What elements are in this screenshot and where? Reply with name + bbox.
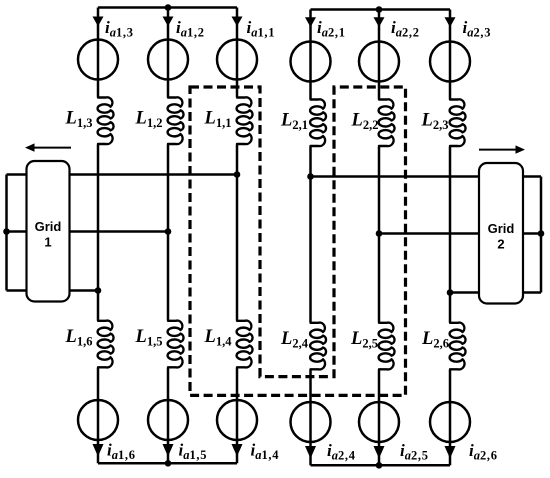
grid1 box [27,161,70,302]
wire top bus right [311,8,451,11]
inductor L1,4 [237,321,253,368]
inductor L2,1 [310,99,326,146]
wire branch a2,2 upper [378,10,381,100]
inductor L1,5 [168,321,184,368]
wire grid2 bus middle [379,232,541,235]
wire grid2 right bracket [540,177,543,293]
inductor L2,5 [379,323,395,370]
inductor L2,6 [450,323,466,370]
current source circle lower a1,4 [217,400,257,440]
arrow down i a2,6 [445,446,456,459]
wire branch a2,2 middle [378,147,381,323]
inductor L2,4 [310,323,326,370]
dashed module contour [190,87,406,395]
arrow down i a2,2 [374,17,385,27]
wire branch a1,2 lower [167,368,170,464]
wire branch a1,2 middle [167,145,170,321]
wire grid1 bus upper [7,173,238,176]
wire branch a2,1 lower [309,370,312,466]
current source circle upper a1,3 [78,40,118,80]
wire branch a2,3 middle [449,147,452,323]
junction dot grid1 lower bus at branch a1,3 [95,287,102,294]
current source circle lower a1,6 [78,400,118,440]
wire branch a1,2 upper [167,8,170,98]
current source circle upper a1,1 [217,40,257,80]
arrow down i a2,3 [445,17,456,27]
junction dot grid2 lower bus at branch a2,3 [447,289,454,296]
wire branch a1,1 middle [236,145,239,321]
inductor L1,1 [237,97,253,144]
wire top bus left [98,6,237,9]
junction dot grid1 left bracket [3,228,10,235]
junction dot grid1 upper bus at branch a1,1 [234,171,241,178]
wire branch a2,1 middle [309,147,312,323]
junction dot grid2 middle bus at branch a2,2 [376,230,383,237]
junction dot grid2 right bracket [538,230,545,237]
junction dot top bus left [165,4,172,11]
svg-text:2: 2 [497,237,504,252]
junction dot grid2 upper bus at branch a2,1 [307,173,314,180]
arrow down i a2,5 [374,446,385,459]
wire bottom bus left [98,462,237,465]
wire grid2 bus upper [311,175,542,178]
current source circle lower a2,4 [291,402,331,442]
wire branch a2,3 lower [449,370,452,466]
wire branch a1,3 upper [97,8,100,98]
arrow down i a1,6 [93,444,104,457]
current source circle lower a2,5 [359,402,399,442]
wire grid1 bus middle [7,230,169,233]
inductor L2,2 [379,99,395,146]
arrow power flow grid2 [479,145,525,153]
inductor L1,3 [98,97,114,144]
arrow down i a1,1 [232,17,243,27]
arrow down i a2,4 [305,446,316,459]
svg-text:Grid: Grid [35,219,62,234]
current source circle upper a2,3 [430,42,470,82]
arrow down i a1,5 [163,444,174,457]
current source circle lower a1,5 [148,400,188,440]
inductor L2,3 [450,99,466,146]
wire branch a1,3 middle [97,145,100,321]
arrow down i a2,1 [305,17,316,27]
arrow down i a1,3 [93,17,104,27]
arrow down i a1,4 [232,444,243,457]
wire grid1 left bracket [5,175,8,291]
wire branch a2,3 upper [449,10,452,100]
svg-text:1: 1 [44,235,51,250]
junction dot top bus right [376,6,383,13]
current source circle upper a2,2 [359,42,399,82]
wire bottom bus right [311,464,451,467]
wire grid2 bus lower [450,291,541,294]
arrow down i a1,2 [163,17,174,27]
inductor L1,6 [98,321,114,368]
wire branch a1,3 lower [97,368,100,464]
wire branch a1,1 upper [236,8,239,98]
wire branch a2,2 lower [378,370,381,466]
junction dot bottom bus right [376,462,383,469]
arrow power flow grid1 [25,143,71,151]
wire branch a1,1 lower [236,368,239,464]
inductor L1,2 [168,97,184,144]
current source circle upper a1,2 [148,40,188,80]
wire branch a2,1 upper [309,10,312,100]
wire grid1 bus lower [7,289,99,292]
svg-text:Grid: Grid [488,221,515,236]
current source circle upper a2,1 [291,42,331,82]
current source circle lower a2,6 [430,402,470,442]
junction dot bottom bus left [165,460,172,467]
junction dot grid1 middle bus at branch a1,2 [165,228,172,235]
grid2 box [479,163,523,304]
